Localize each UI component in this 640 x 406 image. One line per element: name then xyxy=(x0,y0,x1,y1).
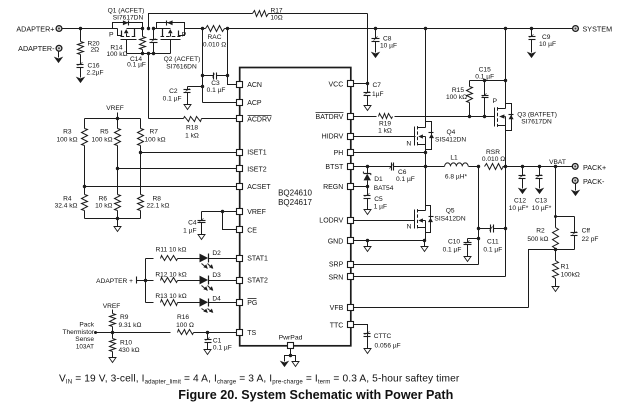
wire ACSET xyxy=(83,185,237,188)
capacitor C10 xyxy=(443,239,479,262)
capacitor CTTC / wire TTC xyxy=(354,325,401,354)
svg-text:SRP: SRP xyxy=(329,262,344,269)
svg-text:0.1 µF: 0.1 µF xyxy=(396,176,415,183)
svg-text:R16: R16 xyxy=(177,314,189,321)
svg-text:VREF: VREF xyxy=(106,105,124,112)
transistor Q4 SIS412DN xyxy=(354,122,467,153)
svg-text:100 kΩ: 100 kΩ xyxy=(91,136,112,143)
svg-text:C7: C7 xyxy=(373,82,382,89)
resistor R13 xyxy=(146,293,200,306)
svg-text:10 kΩ: 10 kΩ xyxy=(95,202,112,209)
svg-text:R18: R18 xyxy=(186,125,198,132)
resistor R12 xyxy=(146,271,200,282)
svg-text:32.4 kΩ: 32.4 kΩ xyxy=(55,202,78,209)
resistor R18 xyxy=(149,117,237,140)
resistor RSR xyxy=(469,149,573,169)
svg-text:ACP: ACP xyxy=(247,100,262,107)
svg-text:BTST: BTST xyxy=(325,164,344,171)
svg-text:VBAT: VBAT xyxy=(549,159,566,166)
pin BATDRV xyxy=(316,113,354,121)
terminal ADAPTER+ xyxy=(16,24,62,33)
wire GND line xyxy=(354,239,429,252)
svg-text:ACDRV: ACDRV xyxy=(247,117,272,124)
svg-text:R11 10 kΩ: R11 10 kΩ xyxy=(156,246,187,253)
resistor RAC xyxy=(203,26,230,49)
svg-text:R9: R9 xyxy=(120,314,129,321)
svg-text:1 µF: 1 µF xyxy=(183,227,196,234)
node VREF label xyxy=(106,105,124,118)
svg-text:STAT2: STAT2 xyxy=(247,278,268,285)
svg-text:100 Ω: 100 Ω xyxy=(176,322,194,329)
wire Q3 source riser xyxy=(504,27,507,81)
svg-text:CTTC: CTTC xyxy=(374,333,392,340)
svg-text:Cff: Cff xyxy=(582,228,590,235)
resistor R9 xyxy=(110,312,142,333)
svg-text:C13: C13 xyxy=(535,198,547,205)
capacitor C3 xyxy=(203,73,228,94)
led D2 xyxy=(200,250,237,269)
transistor Q1 (ACFET) SI7617DN xyxy=(108,8,145,54)
resistor R11 xyxy=(146,246,200,260)
capacitor C11 xyxy=(479,225,506,254)
capacitor C9 xyxy=(528,27,556,58)
svg-text:BQ24617: BQ24617 xyxy=(278,198,312,207)
svg-text:C4: C4 xyxy=(188,219,197,226)
svg-text:0.010 Ω: 0.010 Ω xyxy=(482,156,505,163)
svg-text:PACK+: PACK+ xyxy=(583,163,606,172)
svg-text:R13 10 kΩ: R13 10 kΩ xyxy=(155,293,186,300)
pin ACN xyxy=(237,82,262,89)
capacitor C2 xyxy=(163,87,203,110)
svg-text:0.1 µF: 0.1 µF xyxy=(163,95,182,102)
pin PwrPad xyxy=(279,335,303,349)
svg-text:Q2 (ACFET): Q2 (ACFET) xyxy=(164,56,201,63)
svg-text:R8: R8 xyxy=(153,195,162,202)
svg-text:C10: C10 xyxy=(448,239,460,246)
svg-text:RAC: RAC xyxy=(208,34,222,41)
svg-text:R7: R7 xyxy=(150,129,159,136)
wire RAC sense taps / node C3 line xyxy=(201,29,229,103)
svg-text:D1: D1 xyxy=(374,176,383,183)
wire Q4 drain riser xyxy=(424,27,427,122)
terminal PACK- xyxy=(572,177,605,196)
svg-text:C6: C6 xyxy=(398,169,407,176)
resistor R2 xyxy=(527,217,558,250)
pin STAT1 xyxy=(237,256,269,263)
svg-text:R17: R17 xyxy=(270,7,282,14)
svg-text:0.1 µF: 0.1 µF xyxy=(213,344,232,351)
pin ISET1 xyxy=(237,150,267,157)
svg-text:N: N xyxy=(407,224,412,231)
svg-text:9.31 kΩ: 9.31 kΩ xyxy=(119,322,142,329)
svg-text:C3: C3 xyxy=(211,80,220,87)
svg-text:0.010 Ω: 0.010 Ω xyxy=(203,41,226,48)
svg-text:100 kΩ: 100 kΩ xyxy=(446,94,467,101)
pin TS xyxy=(237,330,257,337)
led D4 xyxy=(200,295,237,313)
svg-text:R3: R3 xyxy=(63,129,72,136)
capacitor Cff xyxy=(556,217,599,250)
svg-text:Q3 (BATFET): Q3 (BATFET) xyxy=(517,111,557,118)
svg-text:SRN: SRN xyxy=(329,274,344,281)
capacitor C8 xyxy=(372,27,398,58)
pin ACP xyxy=(237,100,262,108)
svg-text:R4: R4 xyxy=(63,195,72,202)
svg-text:22 pF: 22 pF xyxy=(582,236,599,243)
capacitor C15 xyxy=(475,67,494,117)
pin SRP xyxy=(329,262,354,269)
svg-text:ISET1: ISET1 xyxy=(247,150,267,157)
svg-text:C15: C15 xyxy=(479,67,491,74)
capacitor C16 xyxy=(77,60,104,83)
wire VREF pin to C4 xyxy=(202,210,237,213)
svg-text:100 kΩ: 100 kΩ xyxy=(145,136,166,143)
wire divider bottom rail + ground xyxy=(85,217,141,232)
label Pack Thermistor Sense xyxy=(62,322,94,351)
svg-text:0.1 µF: 0.1 µF xyxy=(127,61,146,68)
resistor R15 xyxy=(446,81,473,117)
pin CE xyxy=(237,227,258,235)
capacitor C13 xyxy=(532,167,552,213)
svg-text:ADAPTER-: ADAPTER- xyxy=(18,44,55,53)
resistor R8 xyxy=(138,153,170,219)
terminal PACK+ xyxy=(572,163,606,172)
svg-text:VIN = 19 V, 3-cell, Iadapter_l: VIN = 19 V, 3-cell, Iadapter_limit = 4 A… xyxy=(59,374,460,386)
node R2/R1 junction xyxy=(554,248,557,251)
svg-text:2.2µF: 2.2µF xyxy=(87,70,104,77)
svg-text:R2: R2 xyxy=(536,228,545,235)
svg-text:PACK-: PACK- xyxy=(583,177,605,186)
led D3 xyxy=(200,272,237,291)
svg-text:0.1 µF: 0.1 µF xyxy=(443,246,462,253)
resistor R19 xyxy=(354,114,470,135)
svg-text:C2: C2 xyxy=(169,88,178,95)
svg-text:SIS412DN: SIS412DN xyxy=(435,136,466,143)
wire ISET2 xyxy=(116,167,237,170)
resistor R20 xyxy=(78,29,100,60)
pin GND xyxy=(328,238,354,246)
svg-text:PH: PH xyxy=(334,150,344,157)
capacitor C1 xyxy=(204,331,232,355)
svg-text:SYSTEM: SYSTEM xyxy=(583,24,613,33)
svg-text:100kΩ: 100kΩ xyxy=(561,272,580,279)
wire ACDRV riser xyxy=(148,54,150,119)
svg-text:Q5: Q5 xyxy=(446,208,455,215)
svg-text:Sense: Sense xyxy=(75,336,94,343)
svg-text:BATDRV: BATDRV xyxy=(316,114,344,121)
svg-text:C11: C11 xyxy=(487,239,499,246)
svg-text:10 µF*: 10 µF* xyxy=(509,205,529,212)
wire to ACP xyxy=(201,85,237,103)
diode D1 BAT54 xyxy=(363,167,393,192)
svg-text:R19: R19 xyxy=(379,120,391,127)
capacitor C6 / wire BTST xyxy=(354,163,428,184)
terminal ADAPTER- xyxy=(18,44,62,62)
capacitor C5 xyxy=(364,187,388,215)
svg-text:0.1 µF: 0.1 µF xyxy=(207,87,226,94)
svg-text:Pack: Pack xyxy=(79,322,94,329)
pin PG xyxy=(237,299,258,307)
wire VFB xyxy=(354,250,556,308)
svg-text:103AT: 103AT xyxy=(76,343,94,350)
svg-text:SI7617DN: SI7617DN xyxy=(521,119,552,126)
resistor R10 xyxy=(109,333,140,363)
wire BATDRV to Q3 gate xyxy=(468,115,495,118)
svg-text:Thermistor: Thermistor xyxy=(62,329,94,336)
node VREF label at R9 xyxy=(103,303,121,311)
pin VREF xyxy=(237,209,266,217)
wire SRP xyxy=(354,167,481,265)
node VBAT xyxy=(521,159,566,168)
wire PH xyxy=(354,151,428,167)
resistor R5 xyxy=(91,119,120,169)
svg-text:P: P xyxy=(492,98,497,105)
svg-text:VFB: VFB xyxy=(330,305,344,312)
ground at PwrPad xyxy=(281,349,299,367)
pin HIDRV xyxy=(322,134,354,141)
svg-text:PwrPad: PwrPad xyxy=(279,335,303,342)
wire R15/C15 top line xyxy=(470,79,508,82)
inductor L1 xyxy=(426,155,469,181)
svg-text:R12 10 kΩ: R12 10 kΩ xyxy=(155,271,186,278)
svg-text:C5: C5 xyxy=(374,196,383,203)
svg-text:10 µF: 10 µF xyxy=(539,41,556,48)
wire ISET1 xyxy=(139,151,237,154)
svg-text:1 kΩ: 1 kΩ xyxy=(185,132,199,139)
svg-text:C12: C12 xyxy=(514,198,526,205)
wire common node Q1-Q2 xyxy=(141,27,155,30)
svg-text:100 kΩ: 100 kΩ xyxy=(106,51,127,58)
svg-text:D4: D4 xyxy=(212,295,221,302)
wire rail RAC to system xyxy=(228,28,573,30)
svg-text:100 kΩ: 100 kΩ xyxy=(56,136,77,143)
transistor Q5 SIS412DN xyxy=(354,167,466,241)
svg-text:1µF: 1µF xyxy=(372,91,384,98)
pin ACSET xyxy=(237,184,272,191)
svg-text:REGN: REGN xyxy=(323,184,343,191)
wire VBAT to R2 xyxy=(554,167,557,219)
pin SRN xyxy=(329,274,354,282)
capacitor C14 xyxy=(127,29,157,69)
wire rail Q2 to RAC xyxy=(185,27,205,30)
svg-text:D2: D2 xyxy=(212,250,221,257)
transistor Q2 (ACFET) SI7616DN xyxy=(154,20,203,70)
svg-text:0.056 µF: 0.056 µF xyxy=(375,343,401,350)
svg-text:TTC: TTC xyxy=(330,323,344,330)
svg-text:1 µF: 1 µF xyxy=(374,204,387,211)
svg-text:STAT1: STAT1 xyxy=(247,256,268,263)
resistor R17 xyxy=(149,7,368,83)
resistor R16 xyxy=(176,314,236,335)
svg-text:R5: R5 xyxy=(100,129,109,136)
svg-text:C8: C8 xyxy=(383,35,392,42)
svg-text:430 kΩ: 430 kΩ xyxy=(119,347,140,354)
svg-text:VREF: VREF xyxy=(247,209,266,216)
svg-text:Figure 20. System Schematic w: Figure 20. System Schematic with Power P… xyxy=(178,388,453,402)
svg-text:ISET2: ISET2 xyxy=(247,167,267,174)
svg-text:LODRV: LODRV xyxy=(319,218,343,225)
svg-text:R10: R10 xyxy=(120,340,132,347)
IC U1 BQ24610/BQ24617 body xyxy=(240,68,351,346)
wire Q1/Q2 gate line xyxy=(127,52,171,55)
wire divider top rail xyxy=(85,117,141,120)
svg-text:2Ω: 2Ω xyxy=(91,47,100,54)
svg-text:22.1 kΩ: 22.1 kΩ xyxy=(147,202,170,209)
svg-text:P: P xyxy=(109,32,114,39)
svg-text:500 kΩ: 500 kΩ xyxy=(527,236,548,243)
svg-text:SIS412DN: SIS412DN xyxy=(434,215,465,222)
wire REGN xyxy=(354,185,370,188)
svg-text:C16: C16 xyxy=(88,63,100,70)
svg-text:BAT54: BAT54 xyxy=(374,185,394,192)
svg-text:ADAPTER +: ADAPTER + xyxy=(96,278,133,285)
resistor R4 xyxy=(55,187,88,219)
svg-text:GND: GND xyxy=(328,239,344,246)
capacitor C4 xyxy=(183,212,205,240)
svg-text:VCC: VCC xyxy=(329,81,344,88)
pin ACDRV xyxy=(237,116,272,124)
svg-text:1 kΩ: 1 kΩ xyxy=(378,127,392,134)
svg-text:HIDRV: HIDRV xyxy=(322,134,344,141)
svg-text:C1: C1 xyxy=(213,337,222,344)
pin ISET2 xyxy=(237,166,267,174)
svg-text:D3: D3 xyxy=(212,272,221,279)
svg-text:PG: PG xyxy=(247,300,257,307)
wire adapter rail to Q1 xyxy=(63,27,118,30)
svg-text:CE: CE xyxy=(247,228,257,235)
svg-text:VREF: VREF xyxy=(103,303,121,310)
svg-text:Q4: Q4 xyxy=(447,129,456,136)
pin LODRV xyxy=(319,218,353,225)
wire TS line xyxy=(94,331,171,334)
pin STAT2 xyxy=(237,278,269,285)
resistor R3 xyxy=(56,119,87,187)
svg-text:ADAPTER+: ADAPTER+ xyxy=(16,24,54,33)
svg-text:10 µF*: 10 µF* xyxy=(532,205,552,212)
capacitor C7 xyxy=(354,82,384,111)
svg-text:10Ω: 10Ω xyxy=(270,14,282,21)
svg-text:R6: R6 xyxy=(99,195,108,202)
transistor Q3 (BATFET) SI7617DN xyxy=(492,81,557,167)
pin REGN xyxy=(323,184,353,191)
pin PH xyxy=(334,150,354,158)
svg-text:N: N xyxy=(406,140,411,147)
svg-text:ACN: ACN xyxy=(247,82,262,89)
pin VFB xyxy=(330,305,354,313)
wire SRN xyxy=(354,167,508,277)
wire to ACN xyxy=(228,76,237,85)
svg-text:TS: TS xyxy=(247,330,256,337)
wire ADAPTER + feed to LEDs xyxy=(96,259,147,303)
svg-text:SI7616DN: SI7616DN xyxy=(166,64,197,71)
svg-text:Q1 (ACFET): Q1 (ACFET) xyxy=(108,8,145,15)
pin BTST xyxy=(325,164,353,172)
svg-text:ACSET: ACSET xyxy=(247,184,271,191)
pin TTC xyxy=(330,322,354,330)
svg-text:BQ24610: BQ24610 xyxy=(278,189,312,198)
svg-text:6.8 µH*: 6.8 µH* xyxy=(445,174,468,181)
svg-text:10 µF: 10 µF xyxy=(380,42,397,49)
capacitor C12 xyxy=(509,167,529,213)
svg-text:L1: L1 xyxy=(450,155,458,162)
resistor R14 xyxy=(106,29,145,58)
svg-text:R15: R15 xyxy=(452,87,464,94)
svg-text:0.1 µF: 0.1 µF xyxy=(483,246,502,253)
svg-text:R1: R1 xyxy=(561,263,570,270)
svg-text:C9: C9 xyxy=(542,34,551,41)
resistor R1 xyxy=(552,250,580,292)
pin VCC xyxy=(329,81,354,89)
resistor R7 xyxy=(138,119,166,153)
terminal SYSTEM xyxy=(573,24,612,33)
wire CE tie xyxy=(223,212,237,230)
resistor R6 xyxy=(95,169,120,219)
svg-text:0.1 µF: 0.1 µF xyxy=(475,74,494,81)
